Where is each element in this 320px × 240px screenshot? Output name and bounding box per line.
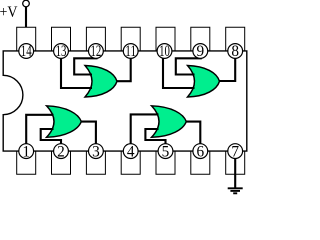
pin 8 number circle bbox=[228, 44, 243, 59]
pin 11 lead rect bbox=[121, 27, 140, 51]
OR gate U1B (pins 4,5 in / 6 out) bbox=[152, 106, 187, 138]
svg-text:2: 2 bbox=[57, 143, 65, 160]
svg-text:1: 1 bbox=[22, 143, 30, 160]
svg-text:11: 11 bbox=[125, 43, 136, 60]
wire pin7 to ground bbox=[234, 159, 236, 189]
OR gate U1A (pins 1,2 in / 3 out) bbox=[47, 106, 82, 138]
wire pin1 to gate U1A upper input bbox=[26, 115, 53, 145]
wire +V supply to pin14 bbox=[25, 7, 27, 27]
pin 1 lead rect bbox=[17, 151, 36, 174]
svg-text:6: 6 bbox=[196, 143, 204, 160]
pin 7 lead rect bbox=[226, 151, 245, 174]
pin 12 lead rect bbox=[86, 27, 105, 51]
wire gate U1B output to pin6 bbox=[186, 122, 200, 149]
pin 10 lead rect bbox=[156, 27, 175, 51]
pin 9 number circle bbox=[193, 44, 208, 59]
OR gate U1C (pins 9,10 in / 8 out) bbox=[188, 66, 220, 98]
pin 4 lead rect bbox=[121, 151, 140, 174]
svg-text:12: 12 bbox=[91, 43, 102, 60]
wire pin10 to gate U1C lower input bbox=[163, 58, 195, 89]
pin 3 lead rect bbox=[86, 151, 105, 174]
svg-text:14: 14 bbox=[21, 43, 32, 60]
wire gate U1C output to pin8 bbox=[220, 53, 236, 81]
pin 2 lead rect bbox=[52, 151, 71, 174]
wire pin13 to gate U1D lower input bbox=[61, 58, 92, 89]
wire pin4 to gate U1B upper input bbox=[131, 114, 159, 144]
pin 11 number circle bbox=[123, 44, 138, 59]
svg-text:4: 4 bbox=[127, 143, 135, 160]
svg-text:3: 3 bbox=[92, 143, 100, 160]
pin 6 lead rect bbox=[191, 151, 210, 174]
wire pin12 to gate U1D upper input bbox=[74, 58, 97, 74]
svg-text:8: 8 bbox=[231, 43, 239, 60]
svg-text:13: 13 bbox=[56, 43, 67, 60]
pin 7 number circle bbox=[228, 144, 243, 159]
pin 3 number circle bbox=[89, 144, 104, 159]
pin 5 lead rect bbox=[156, 151, 175, 174]
pin 9 lead rect bbox=[191, 27, 210, 51]
IC body U1 (DIP-14 outline with index notch) bbox=[3, 51, 247, 151]
pin 8 lead rect bbox=[226, 27, 245, 51]
pin 13 lead rect bbox=[52, 27, 71, 51]
pin 1 number circle bbox=[19, 144, 34, 159]
wire pin2 to gate U1A lower input bbox=[41, 129, 61, 145]
wire gate U1A output to pin3 bbox=[81, 122, 96, 149]
pin 14 lead rect bbox=[17, 27, 36, 51]
svg-text:+V: +V bbox=[0, 4, 18, 21]
wire pin9 to gate U1C upper input bbox=[176, 58, 202, 74]
svg-text:9: 9 bbox=[196, 43, 204, 60]
pin 13 number circle bbox=[54, 44, 69, 59]
svg-text:10: 10 bbox=[159, 43, 170, 60]
pin 6 number circle bbox=[193, 144, 208, 159]
pin 5 number circle bbox=[158, 144, 173, 159]
wire gate U1D output to pin11 bbox=[117, 53, 131, 81]
pin 12 number circle bbox=[89, 44, 104, 59]
wire pin5 to gate U1B lower input bbox=[145, 129, 165, 145]
svg-text:7: 7 bbox=[231, 143, 239, 160]
pin 10 number circle bbox=[157, 44, 172, 59]
svg-text:5: 5 bbox=[162, 143, 170, 160]
+V terminal circle bbox=[23, 0, 30, 7]
pin 2 number circle bbox=[54, 144, 69, 159]
pin 4 number circle bbox=[123, 144, 138, 159]
ground symbol bbox=[228, 188, 243, 193]
pin 14 number circle bbox=[19, 44, 34, 59]
OR gate U1D (pins 12,13 in / 11 out) bbox=[85, 66, 117, 98]
